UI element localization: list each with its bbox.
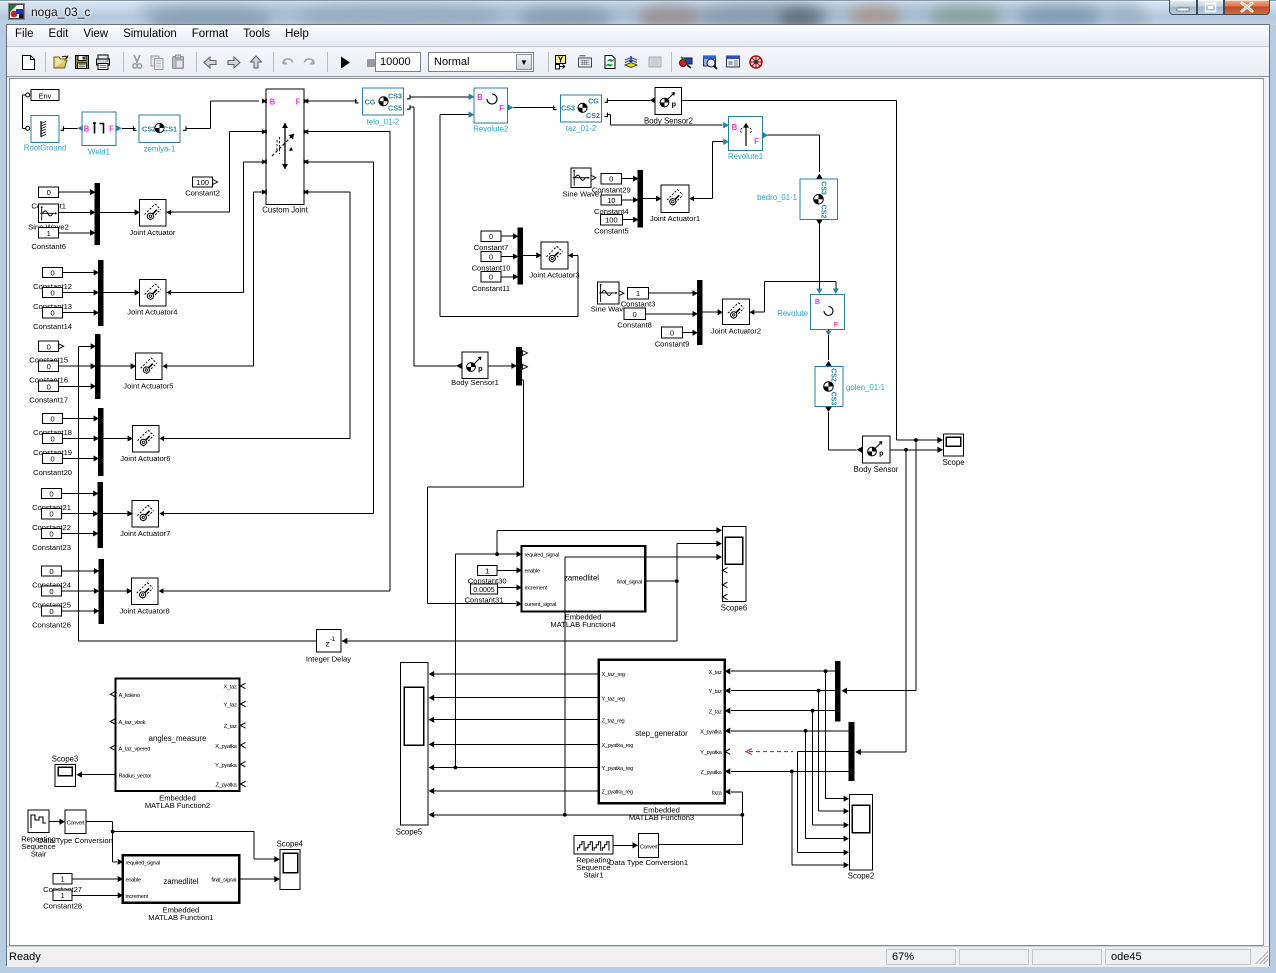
svg-text:0: 0	[50, 435, 54, 444]
svg-text:increment: increment	[525, 586, 548, 592]
svg-text:0: 0	[632, 310, 636, 319]
svg-text:Joint Actuator5: Joint Actuator5	[123, 382, 173, 391]
svg-text:Joint Actuator8: Joint Actuator8	[119, 606, 169, 615]
svg-text:-1: -1	[330, 636, 336, 643]
svg-text:MATLAB Function1: MATLAB Function1	[148, 913, 213, 922]
svg-text:X_taz: X_taz	[708, 670, 722, 676]
svg-text:Body Sensor1: Body Sensor1	[451, 378, 499, 387]
svg-text:Z_taz_reg: Z_taz_reg	[602, 718, 625, 724]
svg-text:final_signal: final_signal	[617, 580, 642, 586]
svg-text:faza: faza	[712, 790, 723, 796]
svg-text:0: 0	[49, 587, 53, 596]
svg-text:0: 0	[49, 567, 53, 576]
svg-text:X_pyatka: X_pyatka	[215, 744, 237, 750]
svg-text:step_generator: step_generator	[635, 729, 688, 738]
svg-text:Joint Actuator1: Joint Actuator1	[650, 214, 700, 223]
svg-text:0: 0	[49, 530, 53, 539]
svg-text:Constant2: Constant2	[185, 188, 220, 197]
svg-text:X_taz_reg: X_taz_reg	[602, 672, 625, 678]
svg-text:Constant11: Constant11	[472, 284, 510, 293]
svg-text:0.0005: 0.0005	[473, 587, 495, 594]
svg-text:Joint Actuator7: Joint Actuator7	[120, 529, 170, 538]
svg-text:Z_taz: Z_taz	[709, 709, 722, 715]
svg-text:100: 100	[196, 178, 209, 187]
svg-text:A_koleno: A_koleno	[119, 693, 140, 699]
svg-text:Constant26: Constant26	[32, 620, 71, 629]
svg-text:CS3: CS3	[561, 104, 575, 113]
svg-text:zamedlitel: zamedlitel	[564, 574, 599, 583]
svg-text:increment: increment	[126, 894, 149, 900]
svg-text:enable: enable	[525, 569, 540, 575]
svg-text:Y_pyatka: Y_pyatka	[700, 750, 722, 756]
svg-text:0: 0	[49, 607, 53, 616]
svg-text:0: 0	[489, 273, 493, 282]
svg-text:Body Sensor: Body Sensor	[854, 465, 899, 474]
svg-text:Env: Env	[39, 91, 52, 100]
svg-text:Y_taz: Y_taz	[223, 703, 236, 709]
svg-text:Joint Actuator: Joint Actuator	[129, 228, 175, 237]
svg-text:Joint Actuator4: Joint Actuator4	[127, 308, 177, 317]
svg-text:B: B	[477, 93, 483, 102]
svg-text:1: 1	[60, 891, 64, 900]
svg-text:Custom Joint: Custom Joint	[262, 206, 308, 215]
svg-text:CS3: CS3	[830, 392, 837, 406]
svg-text:MATLAB Function2: MATLAB Function2	[145, 801, 210, 810]
svg-text:Z_pyatka: Z_pyatka	[216, 783, 238, 789]
svg-text:Constant28: Constant28	[43, 902, 82, 911]
svg-text:0: 0	[489, 252, 493, 261]
svg-text:CS5: CS5	[388, 104, 402, 113]
svg-text:zamedlitel: zamedlitel	[163, 877, 198, 886]
svg-text:CS3: CS3	[388, 92, 402, 101]
svg-text:0: 0	[609, 175, 613, 184]
svg-text:Scope6: Scope6	[721, 604, 747, 613]
svg-text:Constant8: Constant8	[617, 321, 652, 330]
svg-text:Weld1: Weld1	[88, 148, 110, 157]
svg-text:0: 0	[47, 382, 51, 391]
svg-text:Z_pyatka_reg: Z_pyatka_reg	[602, 790, 633, 796]
svg-text:F: F	[754, 137, 759, 146]
svg-text:A_taz_vpered: A_taz_vpered	[119, 746, 151, 752]
svg-text:Y_pyatka: Y_pyatka	[215, 763, 237, 769]
svg-text:CS2: CS2	[142, 124, 156, 133]
svg-text:Scope3: Scope3	[52, 754, 78, 763]
svg-text:Y_taz_reg: Y_taz_reg	[602, 696, 625, 702]
svg-text:Constant17: Constant17	[29, 396, 68, 405]
svg-text:Data Type Conversion1: Data Type Conversion1	[609, 858, 688, 867]
svg-text:CS2: CS2	[830, 368, 837, 382]
svg-text:Revolute2: Revolute2	[473, 125, 508, 134]
svg-text:100: 100	[605, 216, 618, 225]
svg-text:0: 0	[489, 232, 493, 241]
svg-text:golen_01-1: golen_01-1	[846, 383, 885, 392]
svg-text:0: 0	[50, 455, 54, 464]
svg-text:Stair: Stair	[31, 849, 47, 858]
svg-text:angles_measure: angles_measure	[149, 734, 207, 743]
svg-text:taz_01-2: taz_01-2	[566, 124, 596, 133]
svg-text:Integer Delay: Integer Delay	[306, 655, 351, 664]
svg-text:p: p	[879, 448, 884, 457]
svg-text:Revolute: Revolute	[777, 309, 808, 318]
svg-text:Constant14: Constant14	[33, 322, 72, 331]
svg-text:Stair1: Stair1	[584, 870, 604, 879]
svg-text:p: p	[672, 99, 677, 108]
svg-text:Z_taz: Z_taz	[224, 724, 237, 730]
svg-text:Revolute1: Revolute1	[728, 152, 763, 161]
svg-text:0: 0	[670, 329, 674, 338]
svg-text:Convert: Convert	[67, 821, 85, 827]
svg-text:0: 0	[47, 362, 51, 371]
svg-text:0: 0	[50, 289, 54, 298]
svg-text:F: F	[834, 320, 839, 329]
svg-text:required_signal: required_signal	[126, 860, 161, 866]
svg-text:Constant23: Constant23	[32, 543, 71, 552]
svg-text:final_signal: final_signal	[211, 878, 236, 884]
svg-text:Scope2: Scope2	[848, 872, 874, 881]
svg-text:Body Sensor2: Body Sensor2	[644, 117, 693, 126]
svg-text:0: 0	[49, 490, 53, 499]
svg-text:B: B	[270, 98, 276, 107]
svg-text:0: 0	[47, 342, 51, 351]
svg-text:Joint Actuator3: Joint Actuator3	[529, 271, 579, 280]
svg-text:Data Type Conversion: Data Type Conversion	[38, 836, 113, 845]
svg-text:1: 1	[636, 289, 640, 298]
svg-text:Radius_vector: Radius_vector	[119, 773, 152, 779]
svg-text:Constant20: Constant20	[33, 468, 72, 477]
svg-text:Scope: Scope	[942, 458, 964, 467]
svg-text:Constant6: Constant6	[31, 242, 66, 251]
svg-text:CS2: CS2	[586, 111, 600, 120]
svg-text:0: 0	[50, 415, 54, 424]
svg-text:A_taz_vbok: A_taz_vbok	[119, 720, 146, 726]
svg-text:F: F	[296, 98, 301, 107]
svg-text:telo_01-2: telo_01-2	[367, 117, 400, 126]
svg-text:Constant31: Constant31	[465, 595, 504, 604]
svg-text:Joint Actuator6: Joint Actuator6	[120, 454, 170, 463]
svg-text:CS2: CS2	[820, 205, 827, 219]
svg-text:current_signal: current_signal	[525, 602, 557, 608]
svg-text:required_signal: required_signal	[525, 553, 560, 559]
svg-text:Scope5: Scope5	[396, 827, 423, 836]
svg-text:0: 0	[50, 309, 54, 318]
svg-text:10: 10	[607, 196, 615, 205]
svg-text:CS1: CS1	[163, 124, 177, 133]
svg-text:CS3: CS3	[820, 181, 827, 195]
svg-text:Scope4: Scope4	[277, 840, 304, 849]
svg-text:X_pyatka_reg: X_pyatka_reg	[602, 743, 634, 749]
svg-text:MATLAB Function4: MATLAB Function4	[550, 620, 615, 629]
svg-text:B: B	[732, 123, 738, 132]
svg-text:B: B	[84, 125, 90, 134]
svg-text:Y_taz: Y_taz	[708, 689, 722, 695]
svg-text:p: p	[478, 364, 483, 373]
svg-text:1: 1	[60, 875, 64, 884]
svg-text:Convert: Convert	[640, 845, 658, 851]
svg-text:1: 1	[47, 229, 51, 238]
svg-text:X_taz: X_taz	[223, 685, 236, 691]
svg-text:RootGround: RootGround	[24, 144, 66, 153]
svg-text:0: 0	[50, 269, 54, 278]
svg-text:1: 1	[485, 566, 489, 575]
svg-text:F: F	[109, 125, 114, 134]
svg-text:bedro_01-1: bedro_01-1	[757, 193, 797, 202]
svg-text:Constant29: Constant29	[592, 186, 631, 195]
svg-text:0: 0	[49, 510, 53, 519]
svg-text:enable: enable	[126, 877, 141, 883]
svg-text:Z_pyatka: Z_pyatka	[701, 770, 723, 776]
svg-text:X_pyatka: X_pyatka	[700, 729, 722, 735]
svg-text:F: F	[499, 104, 504, 113]
svg-text:zemlya-1: zemlya-1	[144, 145, 176, 154]
svg-text:CG: CG	[588, 96, 599, 105]
svg-text:B: B	[815, 297, 820, 306]
svg-text:Constant9: Constant9	[655, 340, 690, 349]
svg-text:Joint Actuator2: Joint Actuator2	[711, 327, 761, 336]
svg-text:CG: CG	[365, 97, 376, 106]
svg-text:Constant5: Constant5	[594, 227, 629, 236]
svg-text:Constant3: Constant3	[621, 300, 656, 309]
svg-text:Y_pyatka_reg: Y_pyatka_reg	[602, 766, 634, 772]
svg-text:0: 0	[47, 188, 51, 197]
